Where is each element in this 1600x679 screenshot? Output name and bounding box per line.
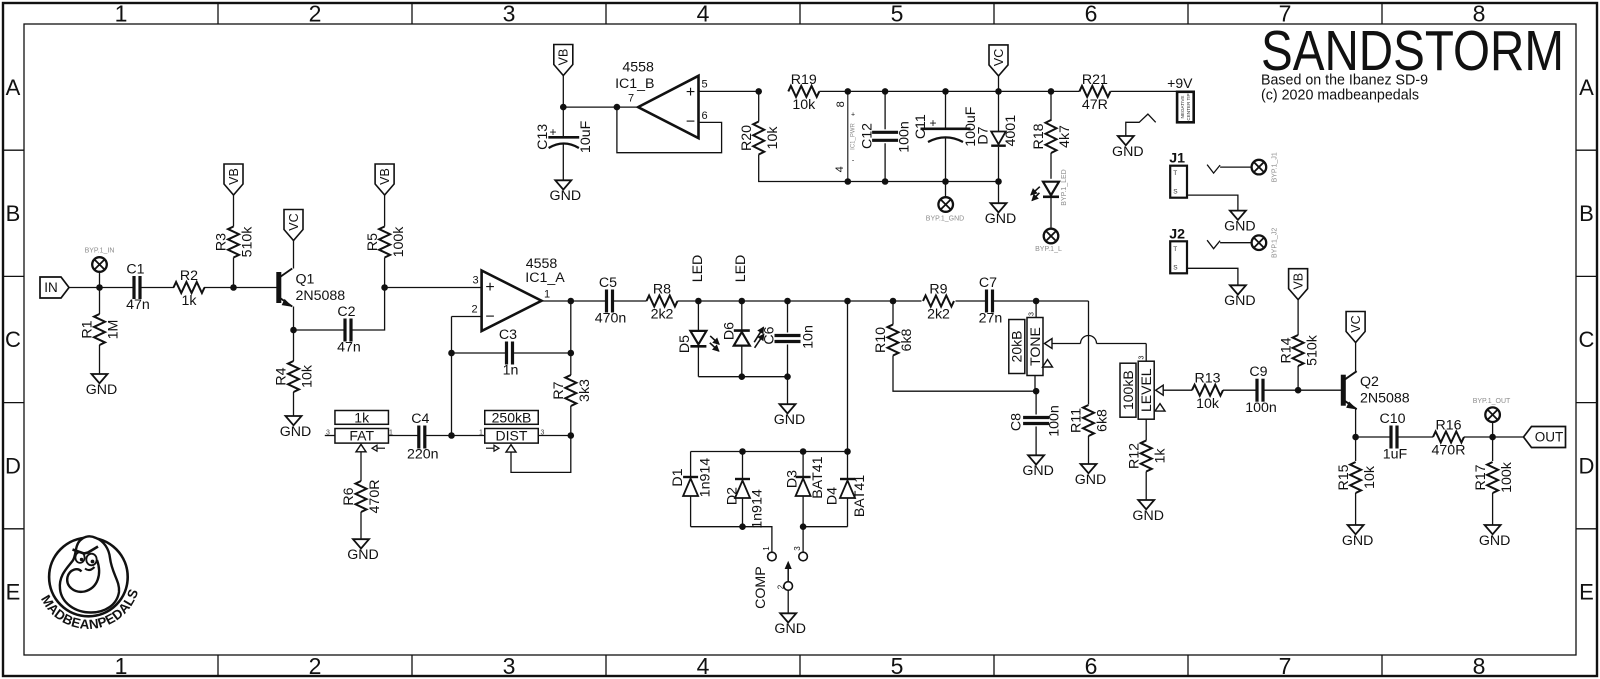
svg-text:5: 5	[891, 653, 904, 679]
wire	[384, 258, 386, 288]
svg-text:C: C	[1579, 327, 1595, 352]
junction	[784, 373, 791, 380]
wire	[613, 300, 647, 302]
wire	[1145, 419, 1147, 440]
wire	[452, 352, 507, 354]
TONE wiper	[1045, 339, 1053, 349]
svg-text:R6: R6	[341, 487, 357, 505]
resistor R17	[1487, 462, 1498, 493]
wire	[1050, 198, 1052, 229]
wire	[99, 288, 101, 315]
svg-text:R2: R2	[180, 268, 198, 284]
svg-text:VB: VB	[378, 168, 392, 185]
svg-text:S: S	[1173, 264, 1178, 271]
DIST wiper	[486, 447, 494, 449]
svg-text:C10: C10	[1379, 411, 1405, 427]
junction	[800, 523, 807, 530]
svg-text:VC: VC	[1349, 315, 1363, 332]
svg-text:R11: R11	[1069, 408, 1085, 433]
wire	[945, 138, 947, 182]
svg-text:GND: GND	[1224, 293, 1256, 309]
wire	[1397, 436, 1433, 438]
svg-text:6k8: 6k8	[1095, 409, 1111, 432]
svg-text:1n914: 1n914	[698, 458, 714, 498]
wire	[1035, 427, 1037, 456]
wire	[1034, 376, 1036, 392]
svg-text:+: +	[485, 279, 494, 296]
junction	[739, 298, 746, 305]
IC1 power pins	[847, 91, 849, 181]
svg-text:47n: 47n	[126, 297, 150, 313]
svg-text:100k: 100k	[1499, 461, 1515, 493]
svg-text:C5: C5	[599, 275, 617, 291]
svg-text:VB: VB	[1291, 273, 1305, 290]
ground	[1230, 285, 1246, 294]
svg-text:+: +	[686, 84, 695, 101]
resistor R3	[228, 227, 239, 258]
svg-text:COMP: COMP	[753, 566, 769, 609]
wire	[1223, 389, 1257, 391]
power flag VC	[989, 45, 1008, 76]
junction	[844, 298, 851, 305]
svg-text:2k2: 2k2	[651, 307, 674, 323]
node IC1A out	[568, 298, 575, 305]
svg-text:GND: GND	[280, 424, 312, 440]
svg-text:R10: R10	[873, 327, 889, 353]
svg-text:BYP.1_J1: BYP.1_J1	[1272, 152, 1279, 182]
svg-text:C12: C12	[859, 123, 875, 149]
svg-text:E: E	[6, 580, 21, 605]
switch COMP arrow	[787, 566, 789, 582]
wire	[293, 392, 295, 416]
ground	[353, 539, 369, 548]
switch COMP pin 2	[784, 582, 793, 591]
svg-text:T: T	[1173, 170, 1177, 177]
ground	[1081, 464, 1097, 473]
bypass pad BYP.1_J2	[1252, 235, 1267, 250]
junction	[882, 88, 889, 95]
svg-text:20kB: 20kB	[1009, 331, 1025, 363]
capacitor C2	[343, 319, 346, 342]
wire	[998, 182, 1000, 204]
bypass pad BYP.1_GND	[938, 197, 953, 212]
svg-text:+: +	[851, 111, 855, 118]
svg-text:3: 3	[793, 546, 802, 551]
svg-text:IN: IN	[44, 280, 58, 295]
bypass pad BYP.1_L	[1044, 229, 1059, 244]
ground	[555, 180, 571, 189]
wire	[759, 155, 848, 182]
capacitor C8	[1023, 416, 1049, 419]
LED D6	[734, 329, 750, 332]
wire	[741, 301, 743, 330]
ground	[1138, 500, 1154, 509]
resistor R11	[1083, 405, 1094, 436]
junction	[844, 448, 851, 455]
wire	[1163, 389, 1192, 391]
ground	[1348, 525, 1364, 534]
wire	[956, 300, 987, 302]
wire	[697, 348, 699, 377]
diode D1	[683, 476, 698, 478]
wire	[99, 272, 101, 288]
svg-text:2N5088: 2N5088	[296, 288, 346, 304]
resistor R12	[1141, 441, 1152, 472]
node C3 right	[568, 350, 575, 357]
transistor Q2	[1341, 375, 1346, 406]
wire	[384, 195, 386, 227]
wire	[204, 287, 277, 289]
svg-text:R1: R1	[80, 320, 96, 338]
resistor R13	[1192, 385, 1223, 396]
svg-text:GND: GND	[1022, 463, 1054, 479]
resistor R18	[1046, 120, 1057, 153]
svg-text:3: 3	[326, 429, 330, 436]
wire	[998, 91, 1000, 131]
node C8 top	[1033, 388, 1040, 395]
ground	[1028, 455, 1044, 464]
svg-text:BYP.1_GND: BYP.1_GND	[926, 216, 964, 223]
junction	[695, 298, 702, 305]
node IC1B fb	[614, 104, 621, 111]
svg-text:1n: 1n	[503, 363, 519, 379]
svg-text:D: D	[1579, 453, 1595, 478]
node Q1 emitter	[290, 327, 297, 334]
svg-text:R3: R3	[214, 233, 230, 251]
junction	[845, 88, 852, 95]
wire	[1355, 437, 1357, 461]
wire	[294, 329, 346, 331]
svg-text:C2: C2	[337, 304, 355, 320]
svg-text:1: 1	[115, 0, 128, 26]
svg-text:2: 2	[309, 653, 322, 679]
node IC1A in+	[381, 284, 388, 291]
node TONE top	[1033, 298, 1040, 305]
svg-text:4001: 4001	[1003, 115, 1019, 147]
wire	[542, 300, 571, 302]
wire	[678, 300, 922, 302]
capacitor C1	[132, 276, 135, 299]
junction	[995, 88, 1002, 95]
wire	[452, 316, 482, 318]
wire	[452, 435, 485, 437]
svg-text:C9: C9	[1249, 364, 1267, 380]
svg-text:C3: C3	[499, 327, 517, 343]
capacitor C12	[872, 131, 898, 134]
resistor R16	[1433, 432, 1464, 443]
wire	[562, 107, 564, 136]
LEVEL wiper	[1156, 385, 1164, 395]
svg-text:1: 1	[115, 653, 128, 679]
wire	[325, 435, 335, 437]
wire	[691, 527, 772, 552]
ground	[780, 613, 796, 622]
ground	[991, 203, 1007, 212]
ground	[1230, 211, 1246, 220]
svg-text:VC: VC	[992, 49, 1006, 66]
svg-text:Based on the Ibanez SD-9: Based on the Ibanez SD-9	[1261, 73, 1428, 89]
wire	[513, 352, 571, 354]
wire	[1492, 493, 1494, 525]
svg-text:3: 3	[1028, 312, 1035, 316]
logo face	[75, 552, 84, 563]
wire	[1145, 344, 1147, 362]
junction	[882, 178, 889, 185]
wire	[884, 91, 886, 129]
wire	[538, 435, 571, 437]
wire	[787, 301, 789, 333]
svg-text:R7: R7	[551, 381, 567, 399]
power flag VC	[284, 210, 303, 241]
wire	[1297, 366, 1299, 390]
capacitor C13	[548, 136, 579, 139]
svg-text:6: 6	[1085, 0, 1098, 26]
resistor R15	[1350, 462, 1361, 493]
svg-text:8: 8	[835, 101, 847, 107]
svg-text:E: E	[1579, 580, 1594, 605]
wire	[742, 498, 744, 527]
wire	[233, 258, 235, 288]
svg-text:3: 3	[472, 274, 478, 286]
junction	[739, 523, 746, 530]
TONE wiper wire with hop	[1052, 343, 1081, 345]
resistor R10	[888, 325, 899, 356]
svg-text:C1: C1	[126, 261, 144, 277]
svg-text:C8: C8	[1008, 413, 1024, 431]
svg-text:BYP.1_J2: BYP.1_J2	[1272, 228, 1279, 258]
svg-text:6k8: 6k8	[899, 328, 915, 351]
svg-text:+9V: +9V	[1167, 75, 1193, 91]
svg-text:3: 3	[503, 0, 516, 26]
resistor R2	[174, 282, 205, 293]
svg-text:4: 4	[834, 166, 846, 172]
svg-text:GND: GND	[774, 412, 806, 428]
wire	[787, 590, 789, 613]
wire	[1145, 472, 1147, 501]
wire	[1355, 409, 1357, 437]
svg-text:R14: R14	[1278, 337, 1294, 363]
svg-text:NEGATIVE: NEGATIVE	[1180, 96, 1185, 119]
wire	[893, 356, 1036, 392]
svg-text:1k: 1k	[1152, 448, 1168, 464]
svg-text:2N5088: 2N5088	[1360, 391, 1410, 407]
svg-text:GND: GND	[550, 188, 582, 204]
svg-text:VB: VB	[227, 168, 241, 185]
svg-text:1k: 1k	[354, 409, 370, 425]
led arrows	[710, 336, 719, 344]
svg-text:1uF: 1uF	[1383, 447, 1408, 463]
svg-text:TONE: TONE	[1027, 327, 1043, 366]
transistor Q1	[276, 272, 281, 303]
wire	[803, 526, 847, 528]
power flag VB	[1289, 269, 1308, 300]
wire	[69, 287, 134, 289]
svg-text:Q2: Q2	[1360, 374, 1379, 390]
wire	[1492, 437, 1494, 461]
wire	[802, 452, 804, 478]
junction	[784, 298, 791, 305]
svg-text:10k: 10k	[1362, 465, 1378, 489]
wire	[99, 345, 101, 374]
resistor R19	[788, 86, 819, 97]
junction	[1048, 88, 1055, 95]
wire	[802, 527, 804, 552]
svg-text:VC: VC	[287, 213, 301, 230]
node Q1 base	[230, 284, 237, 291]
wire	[385, 287, 482, 289]
svg-text:3k3: 3k3	[577, 379, 593, 402]
wire	[1220, 166, 1252, 168]
wire	[884, 143, 886, 181]
svg-text:BYP.1_LED: BYP.1_LED	[1061, 169, 1068, 205]
svg-text:GND: GND	[1132, 508, 1164, 524]
svg-text:R15: R15	[1336, 464, 1352, 490]
node C3 left	[448, 350, 455, 357]
svg-text:27n: 27n	[979, 311, 1003, 327]
diode D2	[735, 478, 750, 480]
svg-text:C13: C13	[535, 124, 551, 150]
svg-text:5: 5	[891, 0, 904, 26]
svg-text:100n: 100n	[896, 121, 912, 153]
wire	[847, 301, 849, 452]
wire	[360, 512, 362, 539]
ground	[780, 404, 796, 413]
svg-text:LED: LED	[733, 255, 749, 283]
potentiometer FAT	[335, 411, 389, 425]
svg-text:4k7: 4k7	[1057, 125, 1073, 148]
junction	[739, 373, 746, 380]
svg-text:OUT: OUT	[1535, 430, 1564, 445]
svg-text:100k: 100k	[391, 226, 407, 258]
ground	[1485, 525, 1501, 534]
svg-text:5: 5	[701, 78, 707, 90]
svg-text:FAT: FAT	[349, 428, 374, 444]
svg-text:7: 7	[1279, 653, 1292, 679]
junction	[739, 448, 746, 455]
svg-text:4: 4	[697, 0, 710, 26]
wire	[998, 147, 1000, 182]
svg-text:3: 3	[1138, 355, 1145, 359]
ground	[1118, 136, 1134, 145]
wire	[802, 496, 804, 527]
svg-text:47n: 47n	[337, 340, 361, 356]
connector OUT	[1524, 427, 1566, 448]
svg-text:J2: J2	[1169, 226, 1185, 242]
svg-text:GND: GND	[1112, 144, 1144, 160]
wire	[690, 452, 692, 478]
wire	[451, 317, 453, 436]
switch COMP pin 1	[768, 552, 777, 561]
svg-text:GND: GND	[774, 621, 806, 637]
wire	[571, 300, 607, 302]
svg-text:Q1: Q1	[296, 271, 315, 287]
potentiometer LEVEL	[1138, 361, 1154, 419]
svg-text:47R: 47R	[1082, 97, 1108, 113]
svg-text:GND: GND	[1342, 533, 1374, 549]
svg-text:10k: 10k	[1196, 396, 1220, 412]
svg-text:GND: GND	[1479, 533, 1511, 549]
svg-text:−: −	[485, 309, 494, 326]
wire	[1355, 343, 1357, 372]
wire	[562, 76, 564, 108]
junction	[845, 178, 852, 185]
svg-text:VB: VB	[557, 49, 571, 66]
wire	[1035, 391, 1037, 414]
wire	[847, 498, 849, 527]
feedback wire	[617, 107, 722, 153]
node DIST 3	[568, 432, 575, 439]
wire	[741, 346, 743, 377]
svg-text:B: B	[1579, 201, 1594, 226]
svg-text:D2: D2	[724, 487, 740, 505]
wire	[1297, 300, 1299, 335]
svg-text:A: A	[6, 75, 21, 100]
svg-text:IC1_A: IC1_A	[525, 270, 565, 286]
svg-text:IC1_PWR: IC1_PWR	[851, 122, 857, 149]
capacitor C5	[605, 290, 608, 313]
wire	[1088, 436, 1090, 464]
diode D4	[840, 478, 855, 480]
svg-text:4: 4	[697, 653, 710, 679]
svg-text:BAT41: BAT41	[852, 475, 868, 517]
led arrows	[754, 327, 763, 342]
wire	[293, 241, 295, 269]
svg-text:6: 6	[1085, 653, 1098, 679]
svg-text:6: 6	[701, 110, 707, 122]
svg-text:R5: R5	[365, 233, 381, 251]
power flag VB	[554, 45, 573, 76]
node DIST 1	[448, 432, 455, 439]
svg-text:D5: D5	[677, 335, 693, 353]
svg-text:10uF: 10uF	[578, 120, 594, 153]
svg-text:7: 7	[628, 92, 634, 104]
capacitor C9	[1255, 379, 1258, 402]
wire	[1187, 195, 1238, 211]
svg-text:100n: 100n	[1245, 400, 1277, 416]
wire	[742, 452, 744, 480]
wire	[1050, 91, 1052, 121]
svg-text:D: D	[5, 453, 21, 478]
wire	[570, 406, 572, 436]
svg-text:C6: C6	[762, 326, 778, 344]
svg-text:100kB: 100kB	[1120, 370, 1136, 410]
wire	[993, 300, 1089, 302]
wire	[848, 90, 1080, 92]
power flag VC	[1346, 312, 1365, 343]
svg-text:C7: C7	[979, 275, 997, 291]
svg-text:BYP.1_IN: BYP.1_IN	[85, 247, 115, 254]
svg-text:LEVEL: LEVEL	[1138, 368, 1154, 412]
svg-text:4558: 4558	[622, 59, 654, 75]
power flag VB	[375, 164, 394, 195]
node VB half supply	[560, 104, 567, 111]
svg-text:C4: C4	[411, 411, 429, 427]
svg-text:100n: 100n	[1046, 405, 1062, 437]
svg-text:(c) 2020 madbeanpedals: (c) 2020 madbeanpedals	[1261, 88, 1419, 104]
madbeanpedals logo	[49, 538, 128, 617]
svg-text:LED: LED	[690, 255, 706, 283]
svg-text:8: 8	[1473, 653, 1486, 679]
resistor R20	[753, 122, 764, 155]
svg-text:DIST: DIST	[496, 428, 528, 444]
svg-text:+: +	[929, 116, 936, 130]
LED BYP.1_LED	[1043, 182, 1059, 196]
capacitor C10	[1389, 426, 1392, 449]
capacitor C3	[505, 342, 508, 365]
resistor R21	[1079, 86, 1110, 97]
wire	[787, 345, 789, 377]
node Q2 emitter	[1352, 434, 1359, 441]
